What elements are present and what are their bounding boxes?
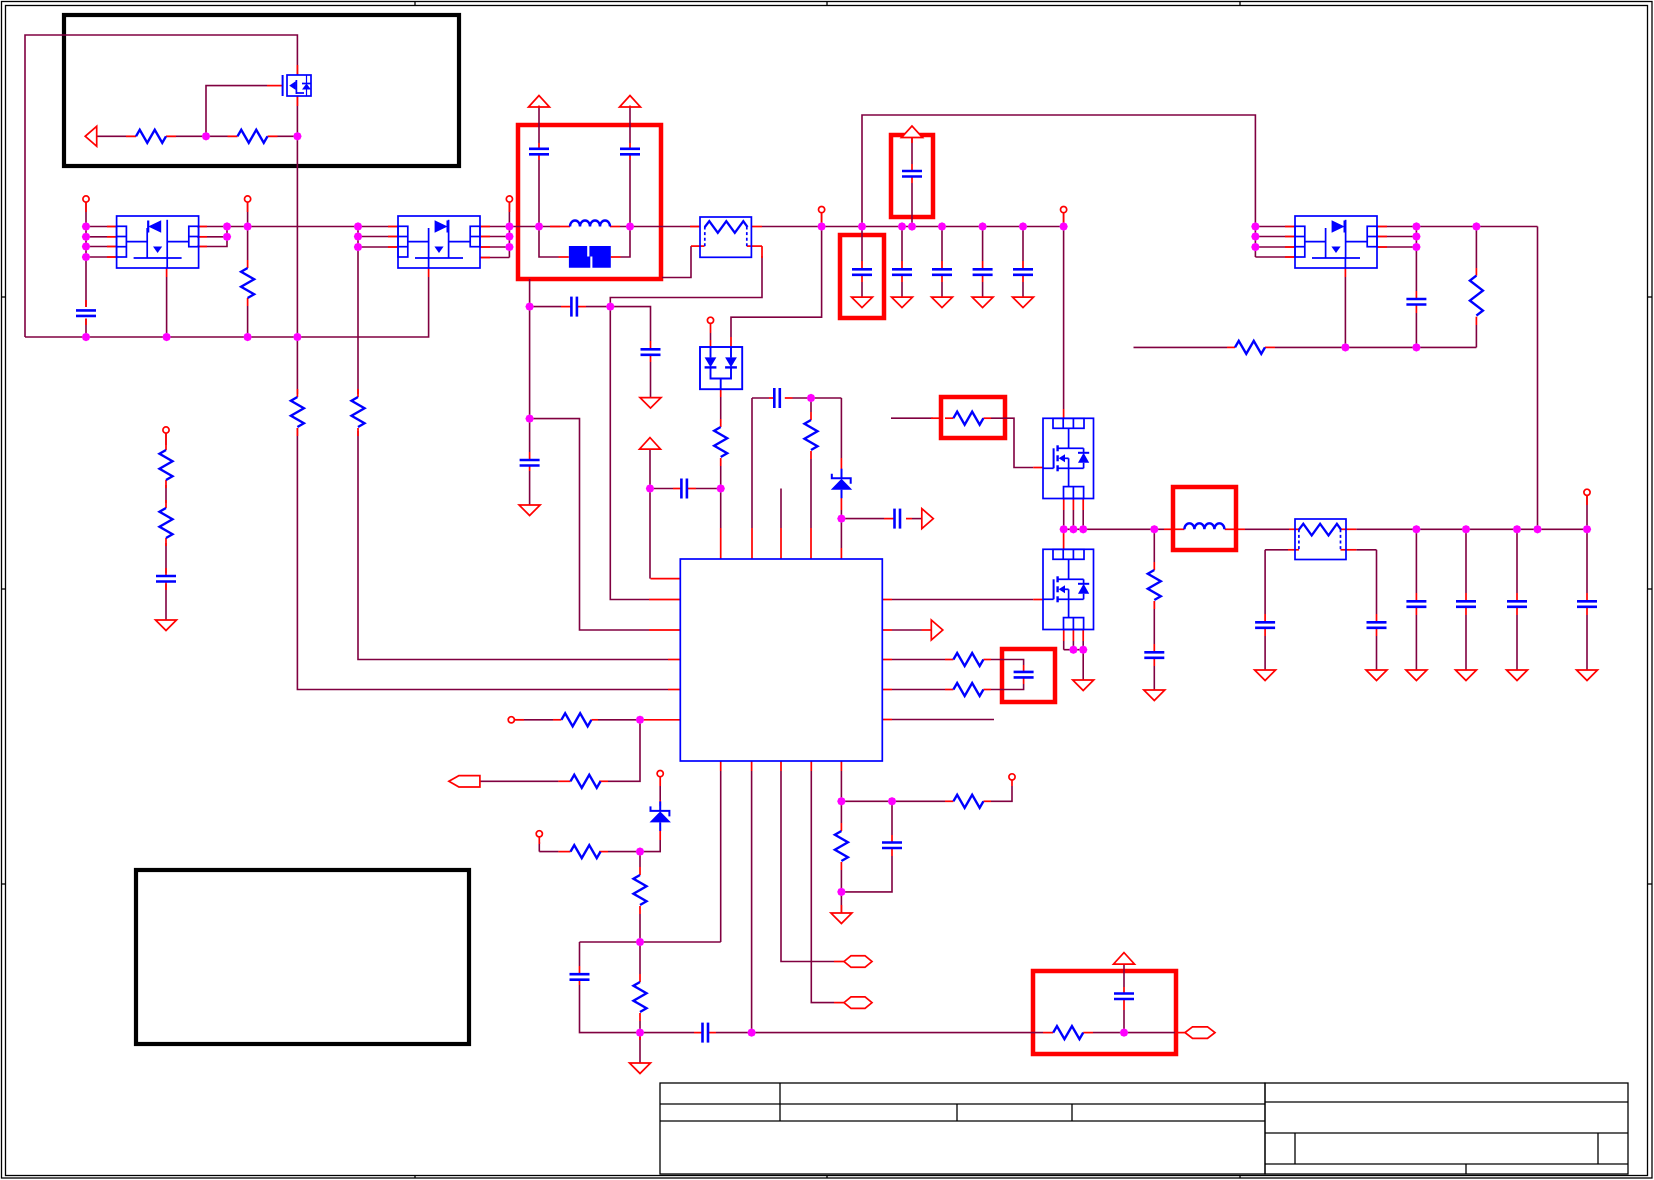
wire sense gnd [840, 892, 842, 913]
wire cap gnd 3 [941, 282, 943, 297]
red highlight box input cap [891, 135, 933, 217]
wire node to gnd [639, 1033, 641, 1063]
wire P2 pin3 [358, 246, 398, 248]
wire lower fet src1 [1063, 641, 1065, 650]
wire gate jog [991, 418, 1033, 467]
ground swcap [1144, 690, 1165, 701]
power arrow EMI1 [529, 96, 550, 108]
wire bus to EMI [509, 226, 560, 228]
wire bus cap 5 [1022, 227, 1024, 262]
ground xcap [519, 505, 540, 516]
zener diode Z2 [650, 801, 671, 831]
wire vout cap 1 [1415, 529, 1417, 593]
border tick [414, 2, 416, 1179]
wire R to circle [539, 851, 558, 853]
capacitor bulk5 [1013, 269, 1033, 275]
wire circle stub bus2 [1063, 213, 1065, 227]
red highlight box gate resistor [941, 397, 1005, 438]
wire bus cap 1 [861, 227, 863, 262]
mosfet lower N2 [1043, 549, 1094, 629]
wire EMI block right [621, 227, 631, 258]
black highlight box top-left [64, 15, 459, 166]
wire P3 pin1 [1255, 226, 1295, 228]
flag hex comp [1185, 1027, 1215, 1039]
wire P3 cap leg [1415, 247, 1417, 291]
capacitor SW [1144, 652, 1164, 658]
capacitor out4 [1456, 601, 1476, 607]
resistor R2 [238, 130, 268, 143]
pin circle enable [508, 717, 514, 723]
fuse/thermistor F1 [700, 217, 751, 257]
resistor prog2 [634, 875, 647, 905]
capacitor cs [882, 843, 902, 849]
wire C to gnd arrow [650, 362, 652, 397]
wire lower fet src2 [1072, 641, 1074, 650]
wire divider gnd [165, 584, 167, 620]
wire cap gnd 5 [1022, 282, 1024, 297]
wire cap gnd leg [529, 419, 531, 452]
wire box cap leg [991, 660, 1024, 666]
wire node to R [810, 398, 812, 412]
resistor SW damp [1148, 570, 1161, 600]
wire node to C gnd branch [610, 307, 650, 341]
wire vout cap gnd 1 [1415, 615, 1417, 670]
mosfet upper N1 [1043, 418, 1094, 498]
mosfet pack P2 [398, 216, 480, 268]
capacitor EMI C1 [529, 149, 549, 155]
arrow right fb [922, 509, 934, 529]
wire fuse L down [1264, 550, 1266, 614]
wire Vout bus [1356, 528, 1587, 530]
flag hex b3 [844, 956, 872, 968]
wire cap drop [579, 942, 581, 966]
wire IC sense- [892, 689, 945, 691]
power arrow EMI2 [620, 96, 641, 108]
wire cap398 node [793, 397, 842, 399]
wire cap to arrow [912, 518, 922, 520]
wire IC pin b3 [781, 771, 834, 962]
wire R2 to node [639, 1021, 641, 1033]
wire cap to diode node [696, 488, 721, 490]
wire cap to node [580, 985, 641, 1033]
wire EMI cap1 to bus [538, 160, 540, 227]
wire R to node [598, 719, 640, 721]
wire cap to gnd [529, 471, 531, 505]
wire cap gnd 4 [982, 282, 984, 297]
wire vout cap gnd 4 [1586, 615, 1588, 670]
wire SW bus [1064, 528, 1164, 530]
wire drain drop [1063, 227, 1065, 410]
resistor comp [1053, 1026, 1083, 1039]
border tick [826, 2, 828, 1179]
wire stub to IC [780, 489, 782, 529]
zener diode Z1 [831, 469, 852, 499]
wire node to R left [608, 851, 640, 853]
wire Cin tall bot [911, 183, 913, 227]
wire Vout sense fuse L [1265, 549, 1288, 551]
mosfet pack P3 [1295, 216, 1377, 268]
capacitor snub [571, 297, 577, 317]
wire divider low [165, 543, 167, 573]
IC controller U1 [680, 559, 882, 761]
wire diode pack anode R [731, 227, 822, 338]
black highlight box bottom-left [136, 870, 469, 1044]
resistor R4 [291, 397, 304, 427]
ground divider [156, 620, 177, 631]
wire node to cap arrow [841, 518, 884, 520]
capacitor bulk3 [932, 269, 952, 275]
red highlight box EMI filter [518, 125, 661, 279]
wire lower fet src3 [1082, 641, 1084, 650]
resistor flag [571, 775, 601, 788]
wire main bus right [762, 226, 1064, 228]
capacitor fb [774, 388, 780, 408]
wire bus cap 4 [982, 227, 984, 262]
wire EMI block left [539, 227, 559, 258]
wire SW res leg [1153, 529, 1155, 562]
wire sense node h [841, 800, 945, 802]
mosfet Q1 [283, 75, 311, 96]
flag pentagon enable [449, 776, 480, 787]
wire C snub to node [586, 306, 610, 308]
resistor gate drive [953, 412, 983, 425]
wire P2 right pin4 [480, 257, 509, 259]
wire Vcc arrow down [649, 448, 651, 489]
ground bulk1 [852, 297, 873, 308]
pin circle R3 [245, 196, 251, 202]
wire Vcc to IC pin [649, 489, 651, 579]
resistor cs [953, 795, 983, 808]
wire P1 pin1 [86, 226, 117, 228]
ground bulk2 [892, 297, 913, 308]
wire P3 cap to bus [1415, 313, 1417, 347]
wire P1 pin3 [86, 246, 117, 248]
wire arrow to R1 [97, 135, 136, 137]
wire diode pack to R [720, 397, 722, 419]
wire node up to fuse [610, 256, 762, 307]
wire EMI cap2 to bus [629, 160, 631, 227]
capacitor x-cap [520, 460, 540, 466]
wire sense R up [991, 786, 1012, 801]
wire R2 to node [268, 135, 298, 137]
wire cap gnd 1 [861, 282, 863, 297]
power arrow Vcc [640, 438, 661, 450]
wire zener2 bottom [640, 840, 660, 852]
wire R to node942 [639, 914, 641, 942]
wire SW tie3 [1082, 510, 1084, 529]
capacitor hf filter [641, 349, 661, 355]
wire IC pin b5 [840, 771, 842, 801]
wire L out [1245, 528, 1289, 530]
resistor R3 [241, 268, 254, 298]
wire R in [514, 719, 553, 721]
capacitor out5 [1507, 601, 1527, 607]
capacitor bulk1 [852, 269, 872, 275]
wire P3 feed [1537, 227, 1539, 530]
resistor vcc [714, 427, 727, 457]
border tick [1239, 2, 1241, 1179]
title block right table [1265, 1083, 1628, 1174]
wire P1 right tie [197, 226, 358, 228]
ground out4 [1456, 670, 1477, 681]
wire comp cap [1123, 1010, 1125, 1033]
wire bus AC neutral [25, 277, 429, 337]
ground out6 [1577, 670, 1598, 681]
wire top feedback net [25, 35, 297, 337]
wire IC out arrow [892, 629, 922, 631]
capacitor bulk2 [892, 269, 912, 275]
wire src tie [1064, 649, 1084, 651]
wire node to IC pin t [840, 519, 842, 548]
wire P1 drain to bus [166, 277, 168, 337]
title block left table [660, 1083, 1265, 1174]
red highlight box inductor [1173, 487, 1236, 550]
arrow left Q1 net [85, 126, 97, 146]
ground hf [640, 398, 661, 409]
wire Vout sense fuse R [1356, 549, 1376, 551]
wire node to IC pin [297, 428, 668, 690]
wire src gnd [1082, 650, 1084, 680]
wire P3 right tie [1415, 227, 1417, 248]
pin circle P2 [506, 196, 512, 202]
wire node down to IC [610, 307, 649, 600]
wire P1 pin2 [86, 236, 117, 238]
wire P2 right pin2 [480, 236, 509, 238]
wire P2 pin2 [358, 236, 398, 238]
wire node to flag [608, 720, 640, 782]
resistor fb top [805, 420, 818, 450]
pin circle diode [707, 317, 713, 323]
power arrow Cin [902, 126, 923, 138]
capacitor bulk4 [973, 269, 993, 275]
wire SW tie [1063, 510, 1065, 529]
wire bus cap 2 [901, 227, 903, 262]
wire IC pin vert [751, 398, 753, 528]
wire bus 347 [1275, 346, 1476, 348]
wire lower fet gate [892, 599, 1033, 601]
wire sense cap bot [841, 856, 892, 892]
wire R to Vcc node [720, 466, 722, 489]
wire bus cap 3 [941, 227, 943, 262]
red highlight box bulk cap [840, 235, 884, 318]
ground bulk3 [932, 297, 953, 308]
wire Vcc node to IC [720, 489, 722, 529]
wire P2 to IC [358, 431, 668, 660]
capacitor P3 [1406, 299, 1426, 305]
capacitor sense filter [1014, 672, 1034, 678]
wire vout cap 3 [1516, 529, 1518, 593]
wire diode pack anode L [710, 333, 712, 340]
wire P3 right pin3 [1377, 246, 1416, 248]
wire flag lead [480, 780, 559, 782]
wire below EMI box [529, 279, 531, 307]
wire SW cap gnd [1153, 666, 1155, 690]
wire R3 net [247, 202, 249, 260]
capacitor out2 [1367, 622, 1387, 628]
capacitor out1 [1255, 622, 1275, 628]
resistor prog [571, 845, 601, 858]
capacitor EMI C2 [620, 149, 640, 155]
ground out2 [1366, 670, 1387, 681]
wire EMI inductor out [620, 226, 700, 228]
wire P3 pin4 [1255, 256, 1295, 258]
wire P3 pin2 [1255, 236, 1295, 238]
border tick [2, 296, 1653, 298]
wire P1 right pin2 [197, 236, 227, 238]
wire Cin tall top [911, 136, 913, 164]
wire Q1 source down [296, 96, 298, 394]
wire IC pin b4 [811, 771, 834, 1003]
wire bus 347 left [1134, 346, 1228, 348]
dual diode D1 [700, 347, 742, 389]
wire circle drop [538, 842, 540, 852]
red pin stubs [86, 65, 1587, 1040]
flag hex b4 [844, 997, 872, 1009]
wire R3 to bus [247, 306, 249, 337]
wire fuse left pin [662, 246, 691, 277]
wire gate upper fet [891, 417, 933, 419]
wire divider [165, 433, 167, 445]
wire P3 right pin1 [1377, 226, 1416, 228]
capacitor comp [1114, 994, 1134, 1000]
resistor out damp [1470, 276, 1483, 316]
wire P1 left pins tie [85, 202, 87, 307]
mosfet pack P1 [117, 216, 199, 268]
ground bulk4 [972, 297, 993, 308]
wire node942 down [639, 942, 641, 974]
wire R to IC [810, 459, 812, 528]
capacitor comp ser [703, 1023, 709, 1043]
ground cs [831, 913, 852, 924]
border tick [2, 588, 1653, 590]
wire comp net [752, 1032, 1043, 1034]
wire IC pin nc [892, 719, 994, 721]
wire EMI cap1 drop [538, 108, 540, 144]
wire vout cap gnd 2 [1465, 615, 1467, 670]
wire P2 right pin3 [480, 246, 509, 248]
wire P1 right pins tie [197, 227, 227, 247]
capacitor prog [570, 974, 590, 980]
inductor EMI [570, 221, 610, 227]
wire P3 right pin2 [1377, 236, 1416, 238]
red highlight box filter cap [1002, 649, 1055, 702]
pin circle bus2 [1061, 207, 1067, 213]
wire node down R [639, 852, 641, 867]
ground prog [630, 1063, 651, 1074]
capacitor divider [156, 576, 176, 582]
pin circle cs [1009, 774, 1015, 780]
capacitor P1 input [76, 310, 96, 316]
resistor divider top [160, 450, 173, 480]
inductor output L [1184, 523, 1224, 529]
wire snub node down [529, 307, 531, 419]
wire IC sense+ [892, 659, 945, 661]
pin circle divider [163, 427, 169, 433]
wire SW res to cap [1153, 601, 1155, 644]
border tick [2, 883, 1653, 885]
capacitor Cin tall [902, 171, 922, 177]
wire circle stub bus1 [821, 213, 823, 227]
wire P1 cap to bus [85, 319, 87, 338]
resistor prog3 [634, 982, 647, 1012]
pin circle prog [536, 831, 542, 837]
wire zener2 top [659, 786, 661, 800]
wire R to bus347 [1475, 325, 1477, 347]
wire P3 out [1416, 226, 1537, 228]
wire gate of Q1 [206, 86, 267, 137]
wire vout circle [1586, 495, 1588, 529]
wire to C snub [530, 306, 561, 308]
wire sense R down [840, 801, 842, 823]
pin circle zener2 [657, 771, 663, 777]
arrow right out [931, 620, 943, 640]
wire sense R bot [840, 870, 842, 892]
resistor cs2 [835, 831, 848, 861]
wire sense cap [891, 801, 893, 835]
wire SW tie2 [1072, 510, 1074, 529]
wire vout cap 2 [1465, 529, 1467, 593]
wire caph to node [716, 1032, 752, 1034]
wire Vcc node to cap [650, 488, 673, 490]
wire top link [862, 115, 1255, 257]
ground out3 [1406, 670, 1427, 681]
wire vout cap gnd 3 [1516, 615, 1518, 670]
transformer blocks EMI [569, 246, 611, 268]
wire fuse R cap gnd [1376, 636, 1378, 670]
wire divider mid [165, 485, 167, 503]
resistor divider bottom [160, 508, 173, 538]
wire EMI cap2 drop [629, 108, 631, 144]
wire node to caph [640, 1032, 694, 1034]
wire R drop [1475, 227, 1477, 269]
wire fuse R down [1376, 550, 1378, 614]
pin circle bus1 [819, 207, 825, 213]
wire box cap leg2 [991, 684, 1024, 690]
wire node942 h [580, 941, 721, 943]
wire zener to node [840, 510, 842, 519]
wire P3 pin3 [1255, 246, 1295, 248]
wire zener top [840, 398, 842, 458]
wire IC pin b1 [720, 771, 722, 942]
resistor enable [561, 713, 591, 726]
capacitor out arrow [895, 509, 901, 529]
wire cap398 to IC [752, 397, 769, 399]
wire R1 to R2 [166, 135, 238, 137]
wire comp R out [1093, 1032, 1175, 1034]
wire P1 pin4 [86, 256, 117, 258]
resistor sense- [953, 683, 983, 696]
fuse/thermistor F2 [1295, 519, 1346, 560]
wire node to IC pin2 [530, 419, 649, 630]
ground out5 [1507, 670, 1528, 681]
wire P2 pin1 [358, 226, 398, 228]
capacitor out3 [1406, 601, 1426, 607]
wire cap gnd 2 [901, 282, 903, 297]
resistor R1 [136, 130, 166, 143]
capacitor out6 [1577, 601, 1597, 607]
ground out1 [1255, 670, 1276, 681]
wire P2 right tie [508, 202, 510, 258]
wire IC pin b2 [751, 771, 753, 1033]
resistor sense+ [953, 653, 983, 666]
wire comp cap top [1123, 963, 1125, 987]
wire vout cap 4 [1586, 529, 1588, 593]
pin circle vout [1584, 489, 1590, 495]
ground bulk5 [1013, 297, 1034, 308]
pin circle P1 [83, 196, 89, 202]
capacitor vcc [681, 479, 687, 499]
ground src [1073, 680, 1094, 691]
